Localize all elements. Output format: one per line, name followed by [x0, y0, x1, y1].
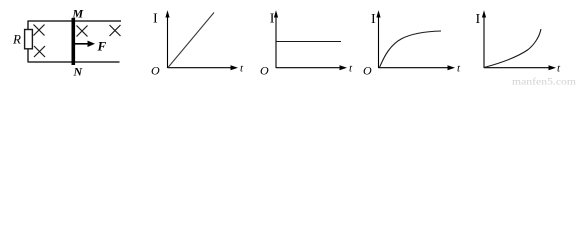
svg-text:O: O	[260, 64, 269, 78]
rod MN	[72, 18, 76, 65]
svg-text:t: t	[240, 63, 244, 75]
svg-text:t: t	[557, 63, 561, 75]
svg-text:t: t	[349, 63, 353, 75]
graph 1 t-axis	[168, 65, 239, 70]
graph 2 I-axis	[274, 10, 278, 68]
svg-text:N: N	[73, 65, 84, 79]
svg-text:I: I	[476, 12, 481, 27]
svg-text:O: O	[151, 64, 160, 78]
graph 4 exponential current curve	[484, 29, 541, 68]
svg-text:O: O	[363, 64, 372, 78]
graph 4 t-axis	[484, 65, 556, 70]
graph 3 I-axis	[376, 10, 380, 68]
svg-text:I: I	[270, 12, 275, 27]
wire left side bottom segment	[27, 49, 29, 62]
resistor R	[25, 30, 33, 49]
field cross B3 (top-right)	[110, 25, 121, 36]
graph 1 linear current line	[168, 13, 214, 68]
graph 2 t-axis	[276, 65, 347, 70]
field cross B2 (top-middle, right of rod)	[77, 26, 88, 37]
graph 3 saturating current curve	[380, 31, 442, 68]
svg-text:R: R	[12, 32, 21, 47]
svg-text:I: I	[153, 12, 158, 27]
graph 4 I-axis	[482, 10, 486, 68]
svg-text:manfen5.com: manfen5.com	[512, 77, 576, 86]
svg-text:I: I	[371, 12, 376, 27]
wire bottom rail	[28, 61, 120, 63]
svg-text:F: F	[97, 39, 107, 54]
field cross B1 (top-left)	[34, 25, 45, 36]
graph 2 constant current line	[277, 41, 342, 43]
wire left side top segment	[27, 21, 29, 30]
field cross B4 (bottom-left)	[34, 46, 45, 57]
wire top rail	[28, 20, 122, 22]
graph 1 I-axis	[165, 10, 169, 68]
graph 3 t-axis	[379, 65, 456, 70]
svg-text:M: M	[72, 7, 84, 21]
svg-text:t: t	[457, 63, 461, 75]
force arrow F	[75, 41, 95, 47]
